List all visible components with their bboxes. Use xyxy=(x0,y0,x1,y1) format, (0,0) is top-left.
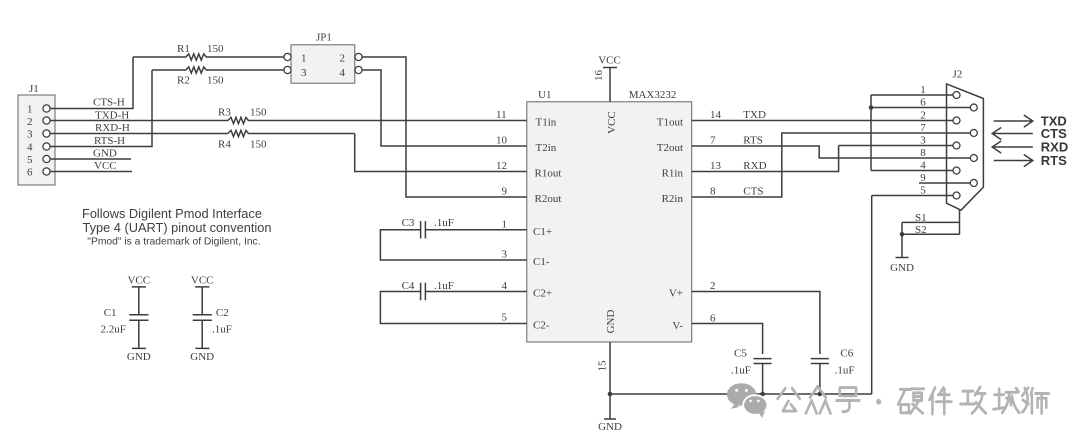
svg-text:V-: V- xyxy=(672,320,683,332)
svg-text:GND: GND xyxy=(598,421,622,433)
wire TXD-H: J1 pin2 to R3 xyxy=(50,120,228,122)
svg-text:T1in: T1in xyxy=(536,117,557,129)
svg-text:C2: C2 xyxy=(216,307,229,319)
svg-text:7: 7 xyxy=(710,135,716,147)
svg-text:T1out: T1out xyxy=(657,117,683,129)
svg-text:2: 2 xyxy=(27,116,33,128)
svg-text:14: 14 xyxy=(710,109,722,121)
svg-text:3: 3 xyxy=(920,135,926,147)
wire R1in RXD jog to J2 pin3 xyxy=(692,146,953,172)
node junction S2 xyxy=(900,232,905,237)
svg-text:150: 150 xyxy=(250,107,267,119)
svg-text:Follows Digilent Pmod Interfac: Follows Digilent Pmod Interface xyxy=(82,206,262,221)
公 xyxy=(778,388,800,411)
svg-text:6: 6 xyxy=(27,167,33,179)
svg-text:Type 4 (UART) pinout conventio: Type 4 (UART) pinout convention xyxy=(83,220,272,235)
svg-text:VCC: VCC xyxy=(127,275,150,287)
svg-text:VCC: VCC xyxy=(94,160,117,172)
svg-text:9: 9 xyxy=(502,186,508,198)
svg-text:.1uF: .1uF xyxy=(434,217,454,229)
svg-text:C1: C1 xyxy=(104,307,117,319)
wire U1 GND pin down xyxy=(609,342,611,419)
connector J2 DB9 xyxy=(947,69,984,211)
wire RXD-H: J1 pin3 to R4 xyxy=(50,133,228,135)
svg-text:3: 3 xyxy=(502,248,508,260)
capacitor C1 with VCC/GND xyxy=(101,275,151,363)
件 xyxy=(929,388,951,414)
ground symbol S2 xyxy=(890,258,914,275)
svg-text:CTS: CTS xyxy=(743,186,763,198)
wire J2 shell tab xyxy=(959,209,961,234)
capacitor C5 xyxy=(731,348,772,395)
众 xyxy=(806,386,831,413)
svg-text:C6: C6 xyxy=(840,348,853,360)
arrow TXD xyxy=(994,114,1067,129)
wire J2 pin9 stub xyxy=(919,182,970,184)
svg-text:2.2uF: 2.2uF xyxy=(101,324,126,336)
wire JP1 pin2 to R2out xyxy=(362,57,527,197)
svg-text:11: 11 xyxy=(496,109,507,121)
svg-text:3: 3 xyxy=(27,129,33,141)
wire CTS-H: J1 pin1 to vertical up to R1 row xyxy=(50,57,133,109)
svg-text:1: 1 xyxy=(27,104,33,116)
svg-text:VCC: VCC xyxy=(191,275,214,287)
wire RXD-H jog down to R1out xyxy=(355,134,527,172)
svg-text:C1+: C1+ xyxy=(533,226,552,238)
svg-text:5: 5 xyxy=(27,154,33,166)
攻 xyxy=(961,387,986,413)
svg-text:C2-: C2- xyxy=(533,320,550,332)
svg-text:R1: R1 xyxy=(177,43,190,55)
svg-text:8: 8 xyxy=(920,147,926,159)
node junction C5 on rail xyxy=(760,392,765,397)
pin number labels J2 xyxy=(920,84,926,197)
capacitor C6 xyxy=(811,348,855,395)
svg-text:GND: GND xyxy=(190,351,214,363)
svg-text:6: 6 xyxy=(920,97,926,109)
wire J2 pin5 to ground rail xyxy=(872,196,953,395)
resistor R2 xyxy=(152,67,284,87)
watermark text 公众号 · 硬件攻城狮 (drawn strokes) xyxy=(778,386,1049,413)
wire J2 pins 1-6-4 tie xyxy=(871,95,970,171)
resistor R1 xyxy=(133,43,284,60)
svg-text:RTS: RTS xyxy=(743,135,763,147)
svg-text:C3: C3 xyxy=(402,217,415,229)
svg-text:150: 150 xyxy=(207,75,224,87)
svg-text:1: 1 xyxy=(502,218,508,230)
svg-text:GND: GND xyxy=(93,148,117,160)
svg-text:16: 16 xyxy=(593,70,605,82)
wire V+ to C6 xyxy=(692,292,820,355)
svg-text:V+: V+ xyxy=(669,288,683,300)
wire V- to C5 xyxy=(692,324,763,355)
svg-text:C5: C5 xyxy=(734,348,747,360)
svg-text:JP1: JP1 xyxy=(316,32,332,44)
VCC power symbol above U1 xyxy=(598,55,621,102)
svg-text:R3: R3 xyxy=(218,107,231,119)
svg-text:GND: GND xyxy=(127,351,151,363)
svg-text:GND: GND xyxy=(890,262,914,274)
arrow RTS xyxy=(994,153,1067,168)
wire RTS-H: J1 pin4 to vertical up to R2 row xyxy=(50,70,152,147)
jumper JP1 xyxy=(284,32,362,84)
svg-text:4: 4 xyxy=(340,67,346,79)
svg-text:R4: R4 xyxy=(218,139,231,151)
svg-text:RTS-H: RTS-H xyxy=(94,135,125,147)
svg-text:J2: J2 xyxy=(953,69,963,81)
svg-text:2: 2 xyxy=(340,53,346,65)
svg-text:TXD-H: TXD-H xyxy=(95,110,129,122)
capacitor C2 with VCC/GND xyxy=(190,275,232,363)
svg-text:RXD-H: RXD-H xyxy=(95,122,130,134)
wire T2out RTS jog to J2 pin8 xyxy=(692,146,971,158)
svg-text:3: 3 xyxy=(301,67,307,79)
dot xyxy=(876,399,881,405)
svg-text:R1in: R1in xyxy=(662,168,684,180)
wire R2in CTS jog to J2 pin7 xyxy=(692,133,971,197)
svg-text:C2+: C2+ xyxy=(533,288,552,300)
svg-text:R2: R2 xyxy=(177,75,190,87)
watermark wechat icon xyxy=(727,383,768,418)
capacitor C4 xyxy=(380,280,526,324)
svg-text:T2out: T2out xyxy=(657,142,683,154)
op-amp U1 MAX3232 body xyxy=(527,89,692,342)
svg-text:TXD: TXD xyxy=(743,109,766,121)
硬 xyxy=(898,389,924,414)
node junction C6 on rail xyxy=(818,392,823,397)
svg-text:1: 1 xyxy=(920,84,926,96)
svg-text:4: 4 xyxy=(920,160,926,172)
node GND junction under U1 xyxy=(608,392,613,397)
svg-text:2: 2 xyxy=(710,280,716,292)
svg-text:.1uF: .1uF xyxy=(212,324,232,336)
svg-text:GND: GND xyxy=(605,310,617,334)
svg-text:13: 13 xyxy=(710,160,722,172)
svg-text:R2in: R2in xyxy=(662,193,684,205)
svg-text:R1out: R1out xyxy=(535,168,562,180)
svg-text:CTS-H: CTS-H xyxy=(93,97,125,109)
connector J1 xyxy=(18,83,55,185)
svg-text:150: 150 xyxy=(207,43,224,55)
svg-text:150: 150 xyxy=(250,139,267,151)
svg-text:5: 5 xyxy=(502,311,508,323)
wire ground rail xyxy=(610,393,872,395)
svg-text:VCC: VCC xyxy=(606,111,618,134)
svg-text:9: 9 xyxy=(920,172,926,184)
svg-text:5: 5 xyxy=(920,185,926,197)
svg-text:.1uF: .1uF xyxy=(731,365,751,377)
svg-text:10: 10 xyxy=(496,135,508,147)
svg-text:"Pmod" is a trademark of Digil: "Pmod" is a trademark of Digilent, Inc. xyxy=(87,237,260,248)
svg-text:RXD: RXD xyxy=(743,160,766,172)
城 xyxy=(993,388,1019,413)
svg-text:.1uF: .1uF xyxy=(835,365,855,377)
svg-text:2: 2 xyxy=(920,110,926,122)
svg-text:12: 12 xyxy=(496,160,507,172)
svg-text:.1uF: .1uF xyxy=(434,280,454,292)
resistor R4 xyxy=(218,130,355,150)
svg-text:4: 4 xyxy=(27,142,33,154)
svg-text:MAX3232: MAX3232 xyxy=(629,89,677,101)
arrow CTS xyxy=(992,126,1067,141)
svg-text:4: 4 xyxy=(502,280,508,292)
svg-text:R2out: R2out xyxy=(535,193,562,205)
ground symbol under U1 xyxy=(598,419,622,433)
svg-text:C1-: C1- xyxy=(533,256,550,268)
svg-text:T2in: T2in xyxy=(536,142,557,154)
svg-text:J1: J1 xyxy=(29,83,39,95)
capacitor C3 xyxy=(380,217,526,260)
号 xyxy=(837,388,860,412)
node junction pin6 tie xyxy=(869,105,874,110)
svg-text:8: 8 xyxy=(710,186,716,198)
svg-text:15: 15 xyxy=(597,360,609,372)
resistor R3 xyxy=(218,107,527,124)
svg-text:RTS: RTS xyxy=(1041,153,1067,168)
svg-text:VCC: VCC xyxy=(598,55,621,67)
note text Digilent xyxy=(82,206,271,248)
svg-text:7: 7 xyxy=(920,122,926,134)
wire T1out to J2 pin2 xyxy=(692,120,953,122)
wire JP1 pin4 to T2in xyxy=(362,70,527,146)
svg-text:1: 1 xyxy=(301,53,307,65)
狮 xyxy=(1022,388,1049,414)
arrow RXD xyxy=(992,140,1068,155)
svg-text:U1: U1 xyxy=(538,89,551,101)
svg-text:C4: C4 xyxy=(402,280,415,292)
